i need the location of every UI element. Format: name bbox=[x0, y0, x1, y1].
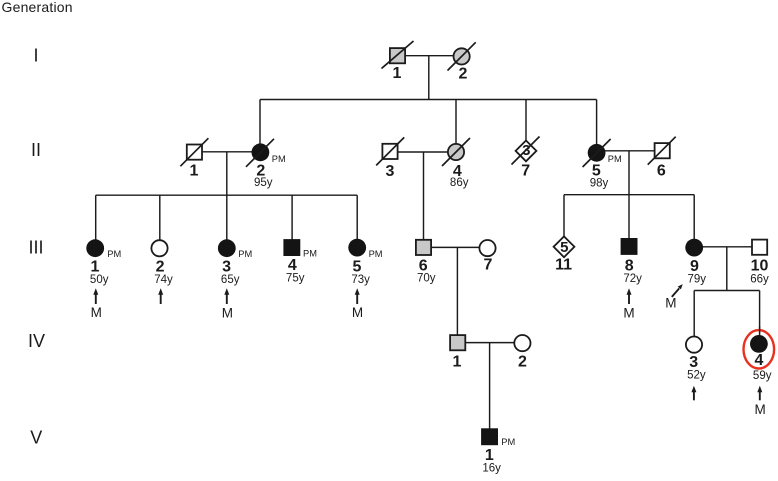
label III-6 number bbox=[419, 258, 428, 275]
svg-text:1: 1 bbox=[453, 353, 462, 370]
svg-text:70y: 70y bbox=[417, 273, 436, 285]
label III-8 M bbox=[623, 305, 634, 320]
wire IV-1 x IV-2 marriage line bbox=[458, 342, 523, 344]
label V-1 PM bbox=[501, 437, 515, 447]
svg-text:PM: PM bbox=[369, 249, 383, 259]
label II-4 number bbox=[453, 163, 462, 180]
wire III-9 x III-10 marriage line bbox=[694, 246, 759, 248]
label III-5 age bbox=[351, 274, 370, 286]
label IV-1 number bbox=[453, 353, 462, 370]
label II-5 PM bbox=[608, 154, 622, 164]
individual II-2 deceased affected female PM bbox=[246, 139, 274, 167]
svg-text:1: 1 bbox=[190, 163, 199, 180]
label II-7 number bbox=[521, 162, 530, 179]
wire generation III left sibship line bbox=[96, 194, 358, 196]
individual III-8 affected male bbox=[621, 238, 638, 255]
label III-1 number bbox=[91, 259, 100, 276]
label generation I bbox=[33, 46, 38, 66]
svg-text:73y: 73y bbox=[351, 274, 370, 286]
svg-text:72y: 72y bbox=[623, 273, 642, 285]
label IV-4 M bbox=[754, 402, 765, 417]
svg-text:11: 11 bbox=[555, 257, 572, 274]
svg-text:3: 3 bbox=[222, 259, 231, 276]
svg-text:9: 9 bbox=[690, 258, 699, 275]
wire drop to IV-4 bbox=[759, 291, 761, 344]
label III-8 age bbox=[623, 273, 642, 285]
label III-10 age bbox=[750, 274, 769, 286]
label III-3 age bbox=[221, 274, 240, 286]
label IV-4 age bbox=[753, 370, 772, 382]
label III-11 number bbox=[555, 257, 572, 274]
label III-9 number bbox=[690, 258, 699, 275]
svg-text:3: 3 bbox=[386, 163, 395, 180]
individual I-2 deceased female (gray circle) bbox=[448, 42, 476, 70]
label III-3 M bbox=[222, 305, 233, 320]
wire generation III right sibship line bbox=[564, 194, 694, 196]
arrow under III-8 bbox=[627, 288, 632, 304]
label III-2 age bbox=[154, 274, 173, 286]
svg-text:4: 4 bbox=[288, 257, 297, 274]
wire descent from II-1 x II-2 bbox=[226, 152, 228, 195]
svg-text:PM: PM bbox=[272, 154, 286, 164]
svg-text:79y: 79y bbox=[688, 274, 707, 286]
label III-7 number bbox=[483, 257, 492, 274]
wire drop to III-9 bbox=[693, 195, 695, 248]
svg-text:1: 1 bbox=[393, 65, 402, 82]
svg-text:M: M bbox=[754, 402, 765, 417]
wire descent from II-5 x II-6 bbox=[628, 151, 630, 195]
svg-text:52y: 52y bbox=[687, 370, 706, 382]
individual IV-2 female bbox=[514, 335, 530, 351]
individual III-3 affected female PM bbox=[218, 239, 236, 257]
individual III-7 female bbox=[479, 240, 495, 256]
label III-10 number bbox=[751, 257, 769, 274]
svg-text:1: 1 bbox=[91, 259, 100, 276]
label Generation bbox=[2, 0, 73, 15]
label III-8 number bbox=[625, 257, 634, 274]
svg-text:98y: 98y bbox=[590, 177, 609, 189]
arrow under IV-4 bbox=[757, 386, 762, 401]
label III-3 PM bbox=[238, 249, 252, 259]
wire descent from III-6 x III-7 to IV-1 bbox=[456, 247, 458, 342]
individual II-1 deceased male bbox=[180, 138, 208, 166]
individual I-1 deceased male (gray square) bbox=[382, 41, 414, 69]
wire drop to III-5 bbox=[356, 195, 358, 247]
svg-text:95y: 95y bbox=[254, 177, 273, 189]
label II-2 number bbox=[256, 162, 265, 179]
wire descent from III-9 x III-10 bbox=[726, 247, 728, 291]
individual III-10 male bbox=[752, 240, 767, 255]
label generation II bbox=[31, 140, 41, 160]
individual IV-1 male (gray square) bbox=[450, 335, 465, 350]
svg-text:3: 3 bbox=[522, 142, 530, 159]
wire II-3 x II-4 marriage line bbox=[390, 151, 456, 153]
wire drop to II-4 bbox=[455, 100, 457, 153]
arrow under III-5 bbox=[355, 288, 360, 304]
label IV-2 number bbox=[518, 353, 527, 370]
svg-text:7: 7 bbox=[521, 162, 530, 179]
svg-text:74y: 74y bbox=[154, 274, 173, 286]
individual III-9 affected female bbox=[685, 239, 703, 257]
individual V-1 affected male PM bbox=[481, 428, 498, 445]
individual IV-4 affected female (circled in red) bbox=[744, 327, 775, 369]
svg-text:86y: 86y bbox=[450, 177, 469, 189]
label III-3 number bbox=[222, 259, 231, 276]
individual II-7 deceased multiple (diamond, 3) bbox=[512, 137, 540, 165]
svg-text:V: V bbox=[30, 427, 42, 447]
label II-2 PM bbox=[272, 154, 286, 164]
label II-4 age bbox=[450, 177, 469, 189]
label III-1 PM bbox=[107, 249, 121, 259]
svg-text:8: 8 bbox=[625, 257, 634, 274]
svg-text:50y: 50y bbox=[90, 274, 109, 286]
svg-text:I: I bbox=[33, 46, 38, 66]
svg-text:M: M bbox=[91, 305, 102, 320]
diagonal arrow at III-9 bbox=[672, 284, 683, 297]
label III-9 age bbox=[688, 274, 707, 286]
label IV-4 number bbox=[754, 352, 763, 369]
svg-text:75y: 75y bbox=[286, 273, 305, 285]
svg-text:2: 2 bbox=[459, 65, 468, 82]
svg-text:PM: PM bbox=[303, 249, 317, 259]
label III-4 age bbox=[286, 273, 305, 285]
individual III-11 multiple (diamond, 5) bbox=[554, 236, 575, 257]
wire drop to III-4 bbox=[291, 195, 293, 247]
arrow under IV-3 bbox=[691, 386, 696, 401]
arrow under III-1 bbox=[93, 288, 98, 304]
label III-6 age bbox=[417, 273, 436, 285]
label I-1 number bbox=[393, 65, 402, 82]
wire III-6 x III-7 marriage line bbox=[424, 246, 488, 248]
label II-6 number bbox=[657, 163, 666, 180]
svg-text:6: 6 bbox=[657, 163, 666, 180]
label V-1 age bbox=[482, 462, 501, 474]
svg-text:3: 3 bbox=[689, 354, 698, 371]
svg-text:M: M bbox=[623, 305, 634, 320]
svg-text:16y: 16y bbox=[482, 462, 501, 474]
svg-text:PM: PM bbox=[501, 437, 515, 447]
label generation III bbox=[28, 237, 43, 257]
wire descent from II-3 x II-4 to III-6 bbox=[423, 152, 425, 247]
individual III-5 affected female PM bbox=[348, 239, 366, 257]
label III-4 number bbox=[288, 257, 297, 274]
label III-5 M bbox=[352, 305, 363, 320]
individual III-2 female bbox=[151, 240, 167, 256]
individual II-5 deceased affected female PM bbox=[583, 139, 611, 167]
svg-text:PM: PM bbox=[608, 154, 622, 164]
individual III-4 affected male PM bbox=[283, 239, 300, 256]
svg-text:II: II bbox=[31, 140, 41, 160]
label III-5 PM bbox=[369, 249, 383, 259]
svg-text:10: 10 bbox=[751, 257, 769, 274]
wire generation IV sibship line bbox=[694, 290, 759, 292]
svg-text:4: 4 bbox=[754, 352, 763, 369]
svg-text:Generation: Generation bbox=[2, 0, 73, 15]
wire drop to II-7 bbox=[525, 100, 527, 151]
wire drop to IV-3 bbox=[693, 291, 695, 345]
svg-text:IV: IV bbox=[28, 331, 45, 351]
svg-text:59y: 59y bbox=[753, 370, 772, 382]
wire I-1 x I-2 marriage line bbox=[398, 55, 462, 57]
wire II-5 x II-6 marriage line bbox=[597, 150, 663, 152]
wire generation II sibship line bbox=[260, 99, 597, 101]
individual II-4 deceased female (gray circle) bbox=[442, 138, 470, 166]
label generation IV bbox=[28, 331, 45, 351]
wire descent from I couple bbox=[428, 56, 430, 100]
wire II-1 x II-2 marriage line bbox=[194, 151, 260, 153]
label IV-3 age bbox=[687, 370, 706, 382]
svg-text:M: M bbox=[665, 296, 676, 311]
wire drop to III-11 bbox=[563, 195, 565, 247]
svg-text:5: 5 bbox=[353, 259, 362, 276]
label I-2 number bbox=[459, 65, 468, 82]
label III-9 M bbox=[665, 296, 676, 311]
svg-text:PM: PM bbox=[107, 249, 121, 259]
label II-5 age bbox=[590, 177, 609, 189]
wire drop to II-2 bbox=[259, 100, 261, 153]
label II-2 age bbox=[254, 177, 273, 189]
wire drop to III-2 bbox=[159, 195, 161, 248]
svg-text:65y: 65y bbox=[221, 274, 240, 286]
label II-1 number bbox=[190, 163, 199, 180]
arrow under III-2 bbox=[158, 288, 163, 304]
svg-text:M: M bbox=[222, 305, 233, 320]
individual II-6 deceased male bbox=[648, 137, 676, 165]
svg-text:2: 2 bbox=[156, 259, 165, 276]
label II-5 number bbox=[592, 163, 601, 180]
individual III-1 affected female PM bbox=[86, 239, 104, 257]
svg-text:PM: PM bbox=[238, 249, 252, 259]
wire drop to II-5 bbox=[596, 100, 598, 153]
svg-text:M: M bbox=[352, 305, 363, 320]
label IV-3 number bbox=[689, 354, 698, 371]
label III-4 PM bbox=[303, 249, 317, 259]
svg-text:2: 2 bbox=[518, 353, 527, 370]
individual II-3 deceased male bbox=[376, 137, 404, 165]
individual III-6 male (gray square) bbox=[416, 240, 431, 255]
label III-2 number bbox=[156, 259, 165, 276]
svg-text:66y: 66y bbox=[750, 274, 769, 286]
wire drop to III-1 bbox=[95, 195, 97, 248]
label III-5 number bbox=[353, 259, 362, 276]
svg-text:7: 7 bbox=[483, 257, 492, 274]
svg-text:III: III bbox=[28, 237, 43, 257]
wire descent from IV-1 x IV-2 to V-1 bbox=[489, 343, 491, 437]
wire drop to III-3 bbox=[226, 195, 228, 248]
label II-3 number bbox=[386, 163, 395, 180]
label III-1 M bbox=[91, 305, 102, 320]
label III-1 age bbox=[90, 274, 109, 286]
individual IV-3 female bbox=[686, 337, 702, 353]
svg-text:5: 5 bbox=[560, 239, 568, 256]
arrow under III-3 bbox=[224, 288, 229, 304]
wire drop to III-8 bbox=[628, 195, 630, 247]
label V-1 number bbox=[485, 447, 494, 464]
label generation V bbox=[30, 427, 42, 447]
